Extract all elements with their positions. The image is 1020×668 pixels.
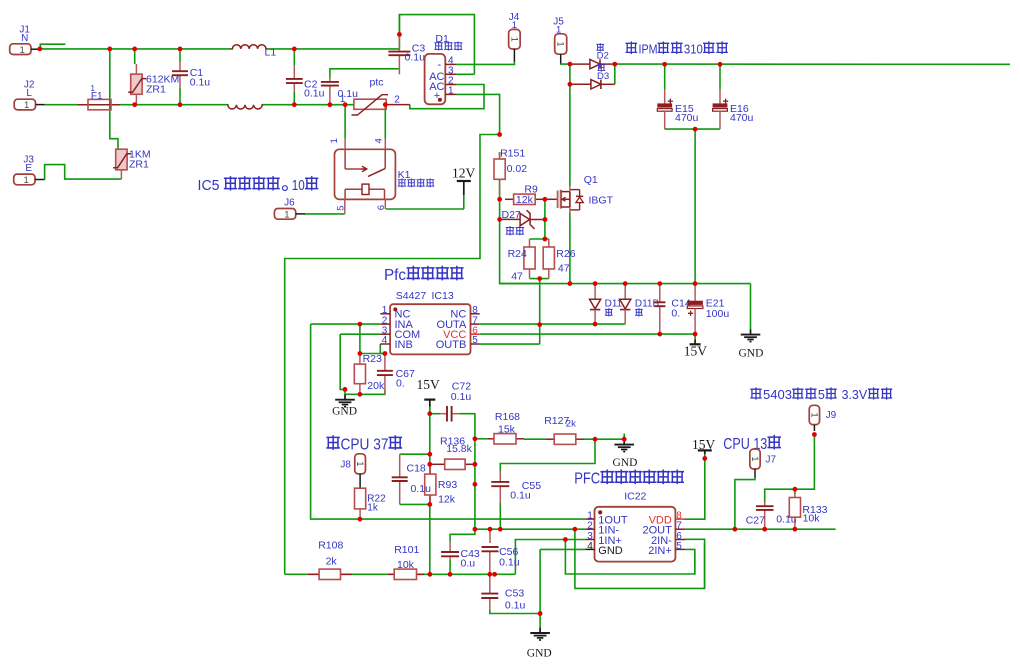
label C27: [746, 515, 765, 527]
node C3 top: [397, 32, 402, 37]
svg-text:0.u: 0.u: [461, 558, 476, 570]
capacitor C14: [654, 284, 665, 335]
svg-text:0.1u: 0.1u: [405, 52, 426, 64]
svg-text:C27: C27: [746, 515, 765, 527]
wire R133 top link: [794, 489, 796, 494]
label D27 name: [506, 227, 523, 235]
wire J9 drop: [765, 435, 815, 503]
label C3: [412, 43, 426, 55]
label R22: [367, 494, 386, 505]
node gnd corner: [343, 387, 348, 392]
wire 2OUT line: [685, 528, 836, 530]
svg-text:0.1u: 0.1u: [451, 391, 472, 403]
wire R93 node down to sense rail: [429, 504, 431, 574]
svg-text:-: -: [438, 59, 442, 71]
ground at R127: [613, 439, 638, 469]
node N at ZR1: [132, 47, 137, 52]
wire R151 to R9 node: [499, 152, 501, 199]
node 310 at D2 out: [612, 62, 617, 67]
svg-text:R151: R151: [500, 148, 525, 160]
capacitor C3: [388, 36, 410, 75]
wire C18 bottom link: [400, 503, 430, 505]
svg-text:1: 1: [509, 37, 519, 42]
wire C53 bottom lead: [489, 598, 491, 610]
node N at varistor drop: [107, 47, 112, 52]
svg-text:C18: C18: [407, 463, 426, 475]
svg-text:GND: GND: [332, 406, 357, 418]
label C67: [396, 368, 415, 380]
node R136 left: [427, 462, 432, 467]
svg-text:PFC: PFC: [574, 471, 600, 488]
node J1 pin: [37, 47, 42, 52]
svg-text:0.02: 0.02: [507, 163, 528, 175]
node rail E21: [693, 281, 698, 286]
svg-text:0.: 0.: [671, 308, 680, 320]
svg-text:15.8k: 15.8k: [446, 443, 472, 455]
connector J7: [750, 449, 760, 469]
wire J8 stub: [359, 474, 361, 488]
connector J9: [809, 405, 819, 424]
svg-text:R24: R24: [508, 248, 527, 260]
wire J9 stub: [813, 425, 815, 431]
svg-text:0.1u: 0.1u: [510, 490, 531, 502]
label J7: [766, 455, 777, 466]
svg-text:R9: R9: [524, 184, 538, 196]
wire N mains line left: [40, 48, 231, 50]
wire J4 stub: [513, 49, 515, 62]
wire COM line: [340, 333, 380, 335]
svg-text:15k: 15k: [498, 424, 516, 436]
svg-text:D3: D3: [597, 71, 609, 82]
svg-text:0.1u: 0.1u: [304, 88, 325, 100]
label C18 value: [411, 483, 432, 495]
wire E-caps bottom down to rail: [694, 129, 696, 284]
label R23: [363, 353, 382, 365]
wire R23 C67 top link: [360, 353, 385, 355]
wire C56 top lead: [489, 529, 491, 543]
resistor R151: [494, 152, 505, 199]
resistor R136: [430, 459, 475, 469]
node rail C43: [448, 572, 453, 577]
ground right of E21: [739, 284, 764, 360]
capacitor C56: [482, 547, 499, 551]
IC IC22 comparator: [585, 507, 685, 562]
transistor Q1 IBGT: [558, 186, 584, 213]
label 0.1u cap value: [338, 88, 359, 100]
power 12V: [452, 166, 476, 210]
inductor L1 bottom winding: [227, 105, 263, 109]
svg-text:10k: 10k: [803, 513, 821, 525]
wire D3 out up: [614, 64, 616, 84]
label PFC protect title: [574, 470, 683, 487]
wire C53 bottom to gnd: [490, 610, 540, 614]
node R24R26 top: [543, 237, 548, 242]
wire C3 bottom to cap 0.1u: [330, 69, 399, 78]
label R26: [556, 248, 575, 260]
label R26 value: [558, 263, 570, 275]
wire K1 pin1 up: [344, 105, 346, 139]
svg-text:R23: R23: [363, 353, 382, 365]
label C27 value: [776, 513, 797, 525]
svg-text:1: 1: [355, 461, 365, 466]
label C1: [190, 67, 204, 79]
wire R24 R26 bottom bar: [530, 278, 549, 280]
label K1 name: [398, 179, 433, 187]
node R168 left: [473, 436, 478, 441]
node D3 anode: [568, 82, 573, 87]
label R93: [438, 479, 457, 491]
wire gnd pin line: [540, 548, 585, 550]
label R108 value: [326, 555, 338, 567]
label R127 value: [566, 419, 576, 430]
svg-text:0.1u: 0.1u: [505, 600, 526, 612]
wire D27 node to rail: [500, 219, 540, 283]
node INA R23: [358, 322, 363, 327]
svg-text:CPU 37: CPU 37: [341, 436, 389, 453]
node R24R26 bottom: [537, 276, 542, 281]
label C1 value: [190, 77, 211, 89]
node 15V C72: [427, 411, 432, 416]
node L at ZR1: [132, 102, 137, 107]
capacitor C1: [172, 49, 188, 105]
node 2OUT R133: [793, 527, 798, 532]
resistor R9: [505, 194, 545, 206]
label C18: [407, 463, 426, 475]
svg-text:5: 5: [472, 335, 478, 346]
svg-text:10: 10: [292, 177, 305, 194]
capacitor E16: [713, 64, 729, 129]
label Q1 type: [589, 194, 614, 206]
node VCC C14: [657, 332, 662, 337]
connector J4: [509, 29, 521, 49]
svg-text:L: L: [26, 88, 32, 99]
svg-text:310: 310: [684, 42, 703, 57]
wire R168 left link: [475, 438, 488, 440]
label C55 value: [510, 490, 531, 502]
svg-text:D27: D27: [502, 209, 521, 221]
svg-text:47: 47: [558, 263, 570, 275]
svg-text:R101: R101: [394, 544, 419, 556]
wire J7 stub: [754, 469, 756, 478]
svg-text:S4427: S4427: [396, 290, 427, 302]
label R108: [318, 540, 343, 552]
label IC5 note: [198, 177, 318, 194]
wire R23 C67 bottom link: [345, 390, 385, 394]
node rail C56C53 a: [487, 572, 492, 577]
svg-text:0.1u: 0.1u: [499, 557, 520, 569]
ground at R23: [332, 394, 357, 417]
svg-text:5403: 5403: [763, 387, 792, 402]
varistor ZR1 612KM: [128, 74, 179, 96]
wire OUTA line: [480, 323, 626, 325]
label D3 par: [598, 64, 605, 71]
label C43 value: [461, 558, 476, 570]
wire ZR1 leads: [135, 64, 137, 74]
diode D11B: [620, 284, 631, 325]
svg-text:D2: D2: [597, 51, 609, 62]
label R151 value: [507, 163, 528, 175]
svg-text:1: 1: [448, 86, 454, 97]
wire L mains line J2 to F1: [45, 104, 78, 106]
svg-text:IC13: IC13: [432, 290, 454, 302]
node OUTA gate branch: [537, 322, 542, 327]
node 1IN- C55: [498, 527, 503, 532]
connector J8: [355, 454, 366, 474]
label to 5403 title: [751, 387, 892, 402]
wire C55 bottom to 1INminus: [499, 503, 501, 529]
svg-text:IPM: IPM: [639, 42, 658, 57]
resistor R23: [354, 354, 365, 395]
capacitor 0.1u unnamed: [321, 78, 339, 105]
label R136 value: [446, 443, 472, 455]
wire 1INminus jog to C43: [450, 529, 475, 541]
label R101: [394, 544, 419, 556]
label Pfc driver title: [384, 266, 463, 283]
svg-text:47: 47: [511, 271, 523, 283]
svg-text:Q1: Q1: [584, 174, 598, 186]
connector J5: [555, 34, 567, 54]
node R23 top: [358, 351, 363, 356]
svg-text:0.1u: 0.1u: [411, 483, 432, 495]
label E16: [730, 103, 749, 115]
label C2 value: [304, 88, 325, 100]
label C2: [304, 79, 318, 91]
label J5 pin: [556, 25, 561, 36]
wire R24 R26 top bar: [530, 238, 549, 240]
label R93 value: [438, 494, 456, 506]
capacitor C43: [441, 541, 459, 560]
node C18 top: [427, 452, 432, 457]
label C72 value: [451, 391, 472, 403]
node rail R93: [428, 572, 433, 577]
connector J2: [14, 80, 45, 112]
svg-text:GND: GND: [739, 347, 764, 359]
label E16 value: [730, 112, 754, 124]
node 310 at J5: [568, 62, 573, 67]
label D11B: [635, 299, 660, 310]
label R24: [508, 248, 527, 260]
wire N-line stub: [40, 44, 65, 49]
svg-text:15V: 15V: [417, 377, 441, 392]
node R127 right: [593, 437, 598, 442]
node 15V VDD: [702, 456, 707, 461]
wire D1 pin4 to J4: [456, 62, 514, 65]
wire K1 pin4 up: [384, 105, 386, 139]
label J4: [509, 12, 520, 23]
IC IC13 S4427 driver: [380, 304, 479, 354]
node R22 bottom: [358, 517, 363, 522]
connector J6: [274, 198, 305, 221]
label D2 par: [597, 44, 604, 51]
node 2OUT C27: [762, 527, 767, 532]
node D27 right: [543, 217, 548, 222]
inductor L1 top winding: [231, 45, 268, 49]
svg-text:1: 1: [284, 210, 289, 221]
wire R133 bottom: [794, 520, 796, 529]
wire E15 E16 bottom: [665, 128, 720, 130]
svg-text:ZR1: ZR1: [129, 159, 149, 171]
wire rail gnd: [500, 283, 751, 285]
svg-text:470u: 470u: [675, 112, 699, 124]
wire 15V to C72 node: [429, 406, 431, 414]
label L1: [265, 47, 277, 59]
svg-text:ptc: ptc: [370, 77, 384, 89]
wire C72 right to R168 node: [460, 414, 475, 439]
wire R9 node to D27 node: [499, 199, 501, 219]
wire 1INminus line: [475, 528, 585, 530]
svg-text:12k: 12k: [438, 494, 456, 506]
label R168 value: [498, 424, 516, 436]
wire D1 pin3: [456, 73, 474, 75]
capacitor C18: [392, 454, 408, 504]
svg-text:4: 4: [374, 138, 385, 143]
wire INB jog: [380, 344, 385, 354]
label D11 par: [605, 309, 612, 316]
node R127 gnd: [622, 437, 627, 442]
wire INA down to IC22 1OUT: [311, 324, 586, 519]
label R133: [802, 504, 827, 516]
wire sense rail: [285, 573, 516, 575]
connector J3: [14, 155, 45, 187]
resistor R133: [789, 494, 800, 520]
wire R127 to gnd node: [584, 438, 624, 440]
svg-text:10k: 10k: [397, 559, 415, 571]
svg-text:1: 1: [20, 45, 25, 56]
svg-text:1: 1: [91, 84, 96, 93]
wire R9 out to Q1 gate node: [545, 198, 558, 200]
label C55: [522, 480, 541, 492]
node N at C1: [178, 47, 183, 52]
svg-text:5: 5: [818, 387, 825, 402]
resistor R108: [308, 569, 352, 579]
capacitor E15: [657, 64, 673, 129]
wire ZR1 top lead: [134, 49, 136, 64]
diode D3: [570, 80, 615, 89]
svg-text:1: 1: [556, 41, 566, 46]
capacitor E21: [687, 284, 703, 335]
svg-text:6: 6: [376, 205, 387, 210]
resistor R93: [425, 464, 436, 504]
label C72: [452, 381, 471, 393]
node 1IN+ branch: [563, 537, 568, 542]
wire node to 12V net: [285, 135, 500, 575]
svg-text:1: 1: [512, 20, 517, 31]
rectifier D1: [425, 54, 457, 104]
svg-text:0.: 0.: [396, 378, 405, 390]
resistor R168: [488, 434, 524, 444]
wire gate node down to D27: [544, 199, 546, 219]
svg-text:N: N: [21, 33, 28, 44]
label S4427: [396, 290, 427, 302]
node C18 bottom: [427, 502, 432, 507]
wire C56 C53 node: [489, 552, 491, 594]
label IC13: [432, 290, 454, 302]
svg-text:1: 1: [329, 138, 340, 143]
label R9: [524, 184, 538, 196]
node J9: [812, 432, 817, 437]
svg-text:D11B: D11B: [635, 299, 660, 310]
label R22 value: [367, 503, 379, 514]
svg-text:1k: 1k: [367, 503, 379, 514]
node R133 top: [793, 487, 798, 492]
wire J5 stub: [560, 54, 562, 63]
label D11B par: [636, 309, 643, 316]
varistor ZR1 1KM: [113, 149, 150, 171]
capacitor C55: [491, 471, 509, 503]
label E21 value: [706, 308, 730, 320]
diode D11: [590, 284, 601, 325]
svg-text:2IN+: 2IN+: [648, 545, 672, 557]
svg-text:R93: R93: [438, 479, 457, 491]
wire J5 to D2: [561, 62, 570, 65]
node 1IN- C56: [488, 527, 493, 532]
node D27 left: [497, 217, 502, 222]
wire R23 branch from INA: [359, 324, 361, 353]
wire 1INplus line: [515, 540, 585, 575]
wire C43 bottom: [449, 560, 451, 574]
svg-text:1: 1: [809, 412, 819, 417]
label J9: [826, 410, 837, 421]
label E15: [675, 103, 694, 115]
svg-text:R168: R168: [495, 411, 520, 423]
label Q1: [584, 174, 598, 186]
svg-text:IC5: IC5: [198, 177, 224, 194]
wire 1INplus to 2INplus branch: [565, 540, 694, 575]
node x475 mid: [473, 482, 478, 487]
capacitor C72: [430, 406, 460, 422]
node L at C1: [178, 102, 183, 107]
svg-text:5: 5: [336, 206, 347, 211]
power 15V at C72: [417, 377, 441, 414]
label to CPU37 title: [327, 436, 401, 453]
node rail D11B: [623, 281, 628, 286]
wire gate resistors to OUTA OUTB: [539, 279, 541, 345]
node L at C2: [292, 102, 297, 107]
svg-text:J8: J8: [340, 460, 351, 471]
svg-text:4: 4: [587, 541, 593, 552]
wire R168 R127 link: [524, 438, 546, 440]
label E15 value: [675, 112, 699, 124]
wire 1KM bottom lead: [120, 170, 122, 179]
svg-text:IBGT: IBGT: [589, 194, 614, 206]
wire J3 earth path: [45, 165, 122, 180]
wire gnd pin down: [539, 549, 541, 613]
node R9 right gate: [543, 197, 548, 202]
connector J1: [10, 24, 40, 56]
label E21: [706, 298, 725, 310]
svg-text:CPU 13: CPU 13: [723, 436, 767, 453]
wire ZR1 bottom lead: [135, 94, 137, 104]
svg-text:R26: R26: [556, 248, 575, 260]
label D11: [605, 299, 623, 310]
svg-text:100u: 100u: [706, 308, 730, 320]
node rail D11: [593, 281, 598, 286]
label IPM supply: [626, 42, 727, 57]
svg-text:1: 1: [750, 456, 760, 461]
svg-text:0.1u: 0.1u: [190, 77, 211, 89]
node L at cap 0.1u: [328, 102, 333, 107]
wire 310V main line: [615, 63, 1010, 65]
node 1IN- branch: [573, 527, 578, 532]
label C3 value: [405, 52, 426, 64]
wire VCC 15V line: [480, 333, 695, 335]
label D1: [435, 33, 449, 45]
node 1IN- x475: [473, 527, 478, 532]
label C67 value: [396, 378, 405, 390]
wire N mains line right: [267, 48, 400, 50]
power 15V under E21: [684, 334, 708, 358]
svg-text:J9: J9: [826, 410, 837, 421]
